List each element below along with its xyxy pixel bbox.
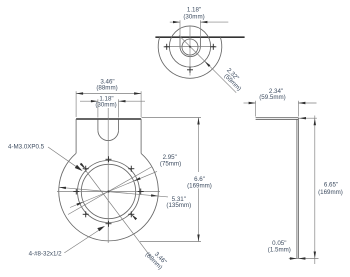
svg-text:(88mm): (88mm) (96, 84, 117, 91)
front body circle (135mm) (59, 153, 159, 241)
top view hole cross east (210, 44, 216, 50)
leader arrowhead on middle circle (205, 61, 211, 67)
rotated dimension text 2.32" (59mm) (225, 67, 240, 82)
top view plate edge line (155, 36, 244, 38)
svg-text:(75mm): (75mm) (160, 160, 181, 167)
6.6" bottom extension line (140, 241, 201, 243)
hole cross east (138, 189, 144, 195)
svg-text:1.18": 1.18" (187, 6, 201, 13)
diameter line 88mm bolt circle (45 deg) (80, 163, 151, 257)
diameter line 75mm bolt circle (70, 171, 157, 207)
front tab right side (140, 119, 142, 153)
top view horizontal centerline (165, 46, 215, 48)
hole cross SW (83, 211, 89, 217)
0.05"(1.5mm) thickness arrows (290, 257, 297, 259)
hole cross NW (83, 166, 89, 172)
leader for #8-32 holes (64, 230, 99, 253)
front horizontal centerline (57, 191, 160, 193)
top view vertical centerline (189, 26, 191, 76)
dimension 2.34"(59.5mm) extension lines (255, 101, 257, 117)
svg-text:4-M3.0XP0.5: 4-M3.0XP0.5 (8, 144, 45, 151)
svg-text:(30mm): (30mm) (183, 13, 204, 20)
svg-text:6.65": 6.65" (324, 182, 338, 189)
hole cross SE (128, 211, 134, 217)
dimension 1.18"(30mm) line with outside arrows (170, 21, 180, 23)
top view hole cross south (187, 67, 193, 73)
top view center junction dot (189, 46, 191, 48)
6.65" top extension with arrow (298, 117, 317, 119)
rotated dimension text 3.46" (88mm) bottom right (153, 251, 168, 266)
svg-text:(169mm): (169mm) (318, 189, 343, 196)
top view hole cross west (164, 44, 170, 50)
svg-text:(169mm): (169mm) (187, 182, 212, 189)
top view outer body arc (below plate line) (158, 37, 222, 78)
front tab top edge (thick) (76, 118, 141, 120)
svg-text:(135mm): (135mm) (166, 202, 191, 209)
6.65" vertical dimension line (314, 116, 316, 265)
leader line for 2.32"(59mm) diameter (179, 36, 236, 93)
dimension 3.46"(88mm) extension lines (75, 91, 77, 117)
dimension 1.18"(30mm) extension lines (179, 20, 181, 36)
side top plate upper line (256, 117, 299, 119)
front slot left side (97, 120, 99, 131)
6.65" bottom extension line (289, 258, 319, 260)
hole cross south (106, 221, 112, 227)
top view slot bottom semicircle (180, 47, 200, 57)
front vertical centerline (107, 108, 109, 243)
hole cross NE (128, 166, 134, 172)
dimension 1.18"(30mm) slot extension lines (97, 99, 99, 117)
hole cross north (106, 156, 112, 162)
dimension 1.18"(30mm) slot line with outside arrows (80, 100, 98, 102)
6.6" top extension line (142, 117, 202, 119)
extra diagonal centerline SW-NE (68, 167, 152, 215)
top view small center circle (182, 39, 198, 55)
svg-text:(1.5mm): (1.5mm) (268, 246, 291, 253)
hole cross west (73, 189, 79, 195)
svg-text:4-#8-32x1/2: 4-#8-32x1/2 (29, 251, 63, 258)
front ring outer circle (78, 161, 140, 223)
dimension 2.34"(59.5mm) line with outside arrows (244, 102, 256, 104)
front slot bottom semicircle (98, 130, 119, 140)
leader for M3 holes (48, 147, 77, 167)
top view slot right side (199, 37, 201, 46)
front tab left side (75, 119, 77, 153)
top view slot left side (179, 37, 181, 46)
side vertical plate right line (297, 118, 299, 259)
side top plate lower line (256, 118, 299, 120)
svg-text:(59.5mm): (59.5mm) (259, 94, 285, 101)
svg-text:(30mm): (30mm) (95, 101, 116, 108)
front ring inner circle (81, 164, 135, 218)
dimension 3.46"(88mm) line with arrows (76, 93, 141, 95)
side vertical plate left line (296, 119, 298, 258)
6.6" vertical dimension line (198, 118, 200, 173)
front view center junction dot (107, 190, 109, 192)
diameter line 135mm body (59, 187, 168, 197)
top view middle circle (59mm) (169, 26, 210, 67)
front slot right side (118, 120, 120, 131)
